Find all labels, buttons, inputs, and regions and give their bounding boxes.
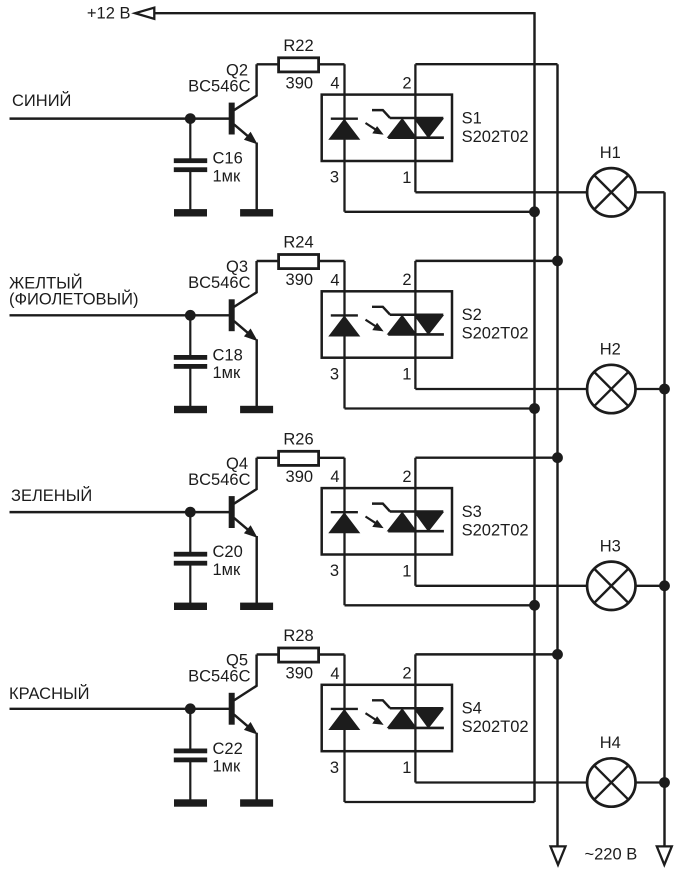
wire collector to R24 <box>257 260 278 262</box>
wire +12 В vertical rail <box>533 12 535 802</box>
power ~220 В arrow right <box>657 846 672 864</box>
resistor R24 <box>279 255 319 269</box>
optocoupler S4 box <box>322 685 452 751</box>
resistor R28 <box>279 648 319 662</box>
svg-text:BC546C: BC546C <box>188 274 250 292</box>
wire collector to R22 <box>257 63 278 65</box>
triac in S4 <box>372 700 390 708</box>
svg-text:390: 390 <box>286 271 314 289</box>
junction loop / 220V rail <box>553 256 563 266</box>
wire R22 to pin 4 <box>319 63 345 65</box>
wire input ЖЕЛТЫЙ <box>10 314 230 316</box>
svg-text:4: 4 <box>330 665 339 683</box>
ground C20 <box>175 603 207 609</box>
capacitor C16 <box>174 159 206 163</box>
wire pin 2 / triac / pin 1 <box>414 458 416 586</box>
LED in S4 <box>331 708 358 710</box>
resistor R22 <box>279 58 319 72</box>
ground Q2 emitter <box>241 210 273 216</box>
junction pin3 / +12V rail <box>530 404 540 414</box>
svg-text:C22: C22 <box>213 740 243 758</box>
svg-text:1: 1 <box>402 759 411 777</box>
svg-text:3: 3 <box>330 759 339 777</box>
svg-text:S202T02: S202T02 <box>462 521 529 539</box>
wire C16 branch <box>189 119 191 160</box>
lamp H1 <box>587 168 635 216</box>
triac in S3 <box>372 504 390 512</box>
lamp H4 <box>587 758 635 806</box>
svg-text:(ФИОЛЕТОВЫЙ): (ФИОЛЕТОВЫЙ) <box>9 290 139 309</box>
wire pin 4 / LED / pin 3 <box>343 458 345 606</box>
light arrow S4 <box>366 713 377 720</box>
svg-text:S202T02: S202T02 <box>462 128 529 146</box>
wire pin 3 to +12V rail <box>345 211 535 213</box>
svg-text:390: 390 <box>286 75 314 93</box>
power +12 В arrow <box>135 8 154 19</box>
wire pin 2 / triac / pin 1 <box>414 64 416 192</box>
wire lamp H4 <box>415 781 664 783</box>
svg-text:H4: H4 <box>600 734 621 752</box>
wire R28 to pin 4 <box>319 653 345 655</box>
svg-text:R26: R26 <box>283 430 313 448</box>
svg-text:1мк: 1мк <box>213 758 242 776</box>
wire pin 3 to +12V rail <box>345 801 535 803</box>
wire lamp H2 <box>415 388 664 390</box>
svg-text:C18: C18 <box>213 346 243 364</box>
svg-text:1: 1 <box>402 366 411 384</box>
lamp H3 <box>587 562 635 610</box>
light arrow S1 <box>366 123 377 130</box>
junction loop / 220V rail <box>553 453 563 463</box>
svg-text:3: 3 <box>330 365 339 383</box>
wire collector to R28 <box>257 653 278 655</box>
svg-text:4: 4 <box>330 75 339 93</box>
svg-text:3: 3 <box>330 169 339 187</box>
ground C16 <box>175 210 207 216</box>
wire pin 4 / LED / pin 3 <box>343 655 345 803</box>
svg-text:4: 4 <box>330 468 339 486</box>
junction pin3 / +12V rail <box>530 600 540 610</box>
ground Q5 emitter <box>241 800 273 806</box>
transistor Q4 <box>229 497 234 528</box>
wire input КРАСНЫЙ <box>10 708 230 710</box>
wire +12 В feed <box>154 12 534 14</box>
svg-text:S3: S3 <box>462 503 482 521</box>
wire pin 2 / triac / pin 1 <box>414 654 416 782</box>
svg-text:4: 4 <box>330 271 339 289</box>
light arrow S2 <box>366 320 377 327</box>
svg-text:1мк: 1мк <box>213 168 242 186</box>
wire C18 branch <box>189 315 191 356</box>
wire ~220 В rail left <box>556 64 558 846</box>
node input/C20 junction <box>185 507 195 517</box>
wire C22 branch <box>189 709 191 750</box>
svg-text:H3: H3 <box>600 538 621 556</box>
wire R26 to pin 4 <box>319 457 345 459</box>
capacitor C22 <box>174 749 206 753</box>
svg-text:2: 2 <box>402 468 411 486</box>
transistor Q5 <box>229 693 234 724</box>
capacitor C20 <box>174 552 206 556</box>
LED in S1 <box>331 117 358 119</box>
node input/C16 junction <box>185 114 195 124</box>
svg-text:2: 2 <box>402 271 411 289</box>
wire pin 4 / LED / pin 3 <box>343 261 345 409</box>
wire lamp H3 <box>415 585 664 587</box>
wire pin 3 to +12V rail <box>345 407 535 409</box>
svg-text:1мк: 1мк <box>213 364 242 382</box>
wire C20 branch <box>189 512 191 553</box>
triac in S1 <box>372 110 390 118</box>
svg-text:1мк: 1мк <box>213 561 242 579</box>
lamp H2 <box>587 365 635 413</box>
svg-text:2: 2 <box>402 74 411 92</box>
svg-text:1: 1 <box>402 169 411 187</box>
wire pin 3 to +12V rail <box>345 604 535 606</box>
svg-text:СИНИЙ: СИНИЙ <box>12 91 71 110</box>
triac in S2 <box>372 307 390 315</box>
LED in S2 <box>331 314 358 316</box>
svg-text:+12 В: +12 В <box>87 5 131 23</box>
optocoupler S3 box <box>322 488 452 554</box>
capacitor C18 <box>174 356 206 360</box>
svg-text:S2: S2 <box>462 306 482 324</box>
svg-text:~220 В: ~220 В <box>585 846 638 864</box>
light arrow S3 <box>366 517 377 524</box>
wire pin 2 loop to 220V rail <box>415 260 557 262</box>
wire pin 2 loop to 220V rail <box>415 456 557 458</box>
wire collector to R26 <box>257 457 278 459</box>
wire ~220 В rail right <box>663 192 665 846</box>
wire pin 2 / triac / pin 1 <box>414 261 416 389</box>
wire input СИНИЙ <box>10 117 230 119</box>
svg-text:390: 390 <box>286 665 314 683</box>
svg-text:S1: S1 <box>462 109 482 127</box>
svg-text:BC546C: BC546C <box>188 77 250 95</box>
svg-text:R24: R24 <box>283 234 313 252</box>
optocoupler S2 box <box>322 291 452 357</box>
svg-text:S4: S4 <box>462 700 482 718</box>
wire pin 2 loop to 220V rail <box>415 653 557 655</box>
power ~220 В arrow left <box>551 846 566 864</box>
ground Q4 emitter <box>241 603 273 609</box>
ground C18 <box>175 406 207 412</box>
junction lamp H4 / right rail <box>660 778 670 788</box>
LED in S3 <box>331 511 358 513</box>
node input/C22 junction <box>185 704 195 714</box>
optocoupler S1 box <box>322 95 452 161</box>
junction lamp H3 / right rail <box>660 581 670 591</box>
svg-text:R22: R22 <box>283 37 313 55</box>
svg-text:КРАСНЫЙ: КРАСНЫЙ <box>9 684 89 703</box>
transistor Q2 <box>229 103 234 134</box>
junction loop / 220V rail <box>553 650 563 660</box>
svg-text:2: 2 <box>402 665 411 683</box>
wire input ЗЕЛЕНЫЙ <box>10 511 230 513</box>
ground C22 <box>175 800 207 806</box>
resistor R26 <box>279 451 319 465</box>
wire R24 to pin 4 <box>319 260 345 262</box>
svg-text:H2: H2 <box>600 341 621 359</box>
svg-text:S202T02: S202T02 <box>462 325 529 343</box>
wire pin 4 / LED / pin 3 <box>343 64 345 212</box>
node input/C18 junction <box>185 310 195 320</box>
wire pin 2 loop to 220V rail <box>415 63 557 65</box>
svg-text:BC546C: BC546C <box>188 668 250 686</box>
svg-text:1: 1 <box>402 562 411 580</box>
junction pin3 / +12V rail <box>530 207 540 217</box>
svg-text:3: 3 <box>330 562 339 580</box>
svg-text:C16: C16 <box>213 150 243 168</box>
svg-text:390: 390 <box>286 468 314 486</box>
svg-text:S202T02: S202T02 <box>462 718 529 736</box>
svg-text:BC546C: BC546C <box>188 471 250 489</box>
svg-text:C20: C20 <box>213 543 243 561</box>
junction lamp H2 / right rail <box>660 384 670 394</box>
transistor Q3 <box>229 300 234 331</box>
svg-text:ЗЕЛЕНЫЙ: ЗЕЛЕНЫЙ <box>11 486 92 505</box>
svg-text:H1: H1 <box>600 144 621 162</box>
ground Q3 emitter <box>241 406 273 412</box>
svg-text:R28: R28 <box>283 627 313 645</box>
wire lamp H1 <box>415 191 664 193</box>
